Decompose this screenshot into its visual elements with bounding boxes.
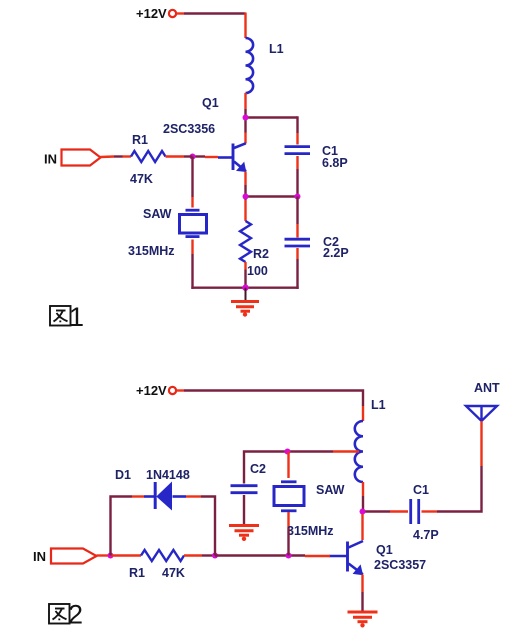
junction tap node (fig2) xyxy=(285,449,291,455)
input connector IN (fig2) xyxy=(33,549,111,565)
junction R1-D1 right node (fig2) xyxy=(212,553,218,559)
resistor R1 47K (fig2) xyxy=(111,550,203,561)
wire +12V rail to L1 corner (fig1) xyxy=(184,12,246,14)
svg-text:R2: R2 xyxy=(253,247,269,261)
SAW resonator 315MHz (fig1) xyxy=(180,197,207,254)
svg-text:ANT: ANT xyxy=(474,381,500,395)
svg-text:L1: L1 xyxy=(371,398,386,412)
svg-text:2SC3357: 2SC3357 xyxy=(374,558,426,572)
wire Q1 emitter to ground (fig2) xyxy=(361,592,363,612)
svg-text:100: 100 xyxy=(247,264,268,278)
ground symbol (fig1) xyxy=(231,288,259,317)
svg-text:R1: R1 xyxy=(132,133,148,147)
svg-text:SAW: SAW xyxy=(316,483,345,497)
svg-text:SAW: SAW xyxy=(143,207,172,221)
svg-text:2: 2 xyxy=(68,600,83,630)
svg-text:+12V: +12V xyxy=(136,383,167,398)
svg-text:D1: D1 xyxy=(115,468,131,482)
wire SAW to ground rail (fig1) xyxy=(191,254,193,289)
junction base node (fig1) xyxy=(190,154,196,160)
junction collector node (fig1) xyxy=(243,115,249,121)
caption 图2 xyxy=(49,604,70,624)
svg-text:4.7P: 4.7P xyxy=(413,528,439,542)
svg-text:1N4148: 1N4148 xyxy=(146,468,190,482)
antenna ANT (fig2) xyxy=(466,406,497,466)
power terminal +12V (fig1) xyxy=(136,6,184,21)
transistor Q1 2SC3357 (fig2) xyxy=(305,514,363,592)
junction IN node (fig2) xyxy=(108,553,114,559)
svg-text:IN: IN xyxy=(44,152,57,167)
wire +12V rail to L1 (fig2) xyxy=(184,391,363,407)
wire IN to R1 (fig1) xyxy=(114,155,123,157)
svg-text:L1: L1 xyxy=(269,42,284,56)
svg-text:1: 1 xyxy=(69,302,84,332)
junction ground node (fig1) xyxy=(242,285,248,291)
wire Q1 emitter to node (fig1) xyxy=(246,185,298,200)
inductor L1 (fig1) xyxy=(246,13,254,110)
ground rail wire (fig1) xyxy=(191,287,298,289)
svg-text:C2: C2 xyxy=(250,462,266,476)
wire SAW to base row (fig2) xyxy=(287,528,289,556)
wire D1 branch left (fig2) xyxy=(111,497,133,556)
junction C1-C2 node (fig1) xyxy=(295,194,301,200)
svg-text:2.2P: 2.2P xyxy=(323,246,349,260)
power terminal +12V (fig2) xyxy=(136,383,184,398)
capacitor C2 (fig2) xyxy=(231,486,258,526)
wire base node down to SAW (fig1) xyxy=(191,157,193,198)
diode D1 1N4148 (fig2) xyxy=(132,482,201,511)
wire R1 to D1 node (fig2) xyxy=(202,554,215,556)
wire R1 to base node (fig1) xyxy=(184,155,193,157)
svg-text:315MHz: 315MHz xyxy=(128,244,175,258)
svg-text:Q1: Q1 xyxy=(376,543,393,557)
resistor R2 100 (fig1) xyxy=(240,200,251,270)
svg-text:Q1: Q1 xyxy=(202,96,219,110)
caption 图1 xyxy=(50,306,71,326)
wire D1 branch right (fig2) xyxy=(201,497,215,556)
resistor R1 47K (fig1) xyxy=(123,151,185,162)
capacitor C1 4.7P (fig2) xyxy=(390,499,437,524)
wire C2 to ground rail (fig1) xyxy=(296,259,298,289)
wire R2 to ground rail (fig1) xyxy=(244,270,246,288)
wire L1 to Q1 collector node (fig1) xyxy=(246,109,298,133)
label C1 6.8P (fig1) xyxy=(322,144,348,170)
input connector IN (fig1) xyxy=(44,150,114,167)
capacitor C2 (fig1) xyxy=(285,197,311,260)
inductor L1 tapped (fig2) xyxy=(355,406,363,496)
junction SAW bottom node (fig2) xyxy=(286,553,292,559)
transistor Q1 2SC3356 (fig1) xyxy=(205,133,246,186)
svg-text:47K: 47K xyxy=(130,172,153,186)
ground symbol under Q1 (fig2) xyxy=(348,612,378,628)
wire tap red to L1 (fig2) xyxy=(333,450,359,452)
svg-text:IN: IN xyxy=(33,549,46,564)
junction collector node (fig2) xyxy=(360,509,366,515)
junction emitter node (fig1) xyxy=(243,194,249,200)
ground symbol under C2 (fig2) xyxy=(229,526,259,542)
svg-text:315MHz: 315MHz xyxy=(287,524,334,538)
wire base node to Q1 (fig1) xyxy=(193,155,206,157)
wire base row to SAW node (fig2) xyxy=(215,554,305,556)
svg-text:C1: C1 xyxy=(413,483,429,497)
wire L1 bottom to collector node (fig2) xyxy=(362,496,364,514)
capacitor C1 (fig1) xyxy=(285,133,311,169)
wire ANT down to C1 (fig2) xyxy=(437,466,482,512)
SAW resonator 315MHz (fig2) xyxy=(274,452,304,529)
wire C1 to collector node (fig2) xyxy=(363,510,391,512)
svg-text:2SC3356: 2SC3356 xyxy=(163,122,215,136)
svg-text:47K: 47K xyxy=(162,566,185,580)
svg-text:R1: R1 xyxy=(129,566,145,580)
label C2 2.2P (fig1) xyxy=(323,235,349,260)
wire tap row (fig2) xyxy=(244,452,333,484)
svg-text:+12V: +12V xyxy=(136,6,167,21)
wire C1 to emitter node (fig1) xyxy=(296,169,298,197)
svg-text:6.8P: 6.8P xyxy=(322,156,348,170)
